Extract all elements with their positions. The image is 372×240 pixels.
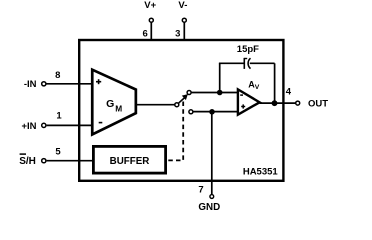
svg-text:HA5351: HA5351 <box>243 166 279 177</box>
svg-text:M: M <box>115 103 122 113</box>
svg-text:+IN: +IN <box>21 121 36 132</box>
svg-text:3: 3 <box>175 28 180 39</box>
svg-text:5: 5 <box>55 146 61 157</box>
svg-text:S/H: S/H <box>19 156 36 167</box>
svg-text:V: V <box>255 84 260 91</box>
svg-text:V+: V+ <box>144 0 156 11</box>
svg-text:1: 1 <box>56 111 62 122</box>
svg-text:7: 7 <box>198 184 203 195</box>
svg-text:V-: V- <box>178 0 187 11</box>
svg-text:-IN: -IN <box>24 79 37 90</box>
svg-text:6: 6 <box>143 28 148 39</box>
svg-text:15pF: 15pF <box>237 44 259 55</box>
svg-text:8: 8 <box>55 70 60 81</box>
svg-text:G: G <box>106 98 114 110</box>
svg-text:BUFFER: BUFFER <box>110 156 150 167</box>
svg-text:GND: GND <box>198 202 220 213</box>
svg-text:4: 4 <box>286 87 292 98</box>
svg-text:OUT: OUT <box>308 98 328 109</box>
